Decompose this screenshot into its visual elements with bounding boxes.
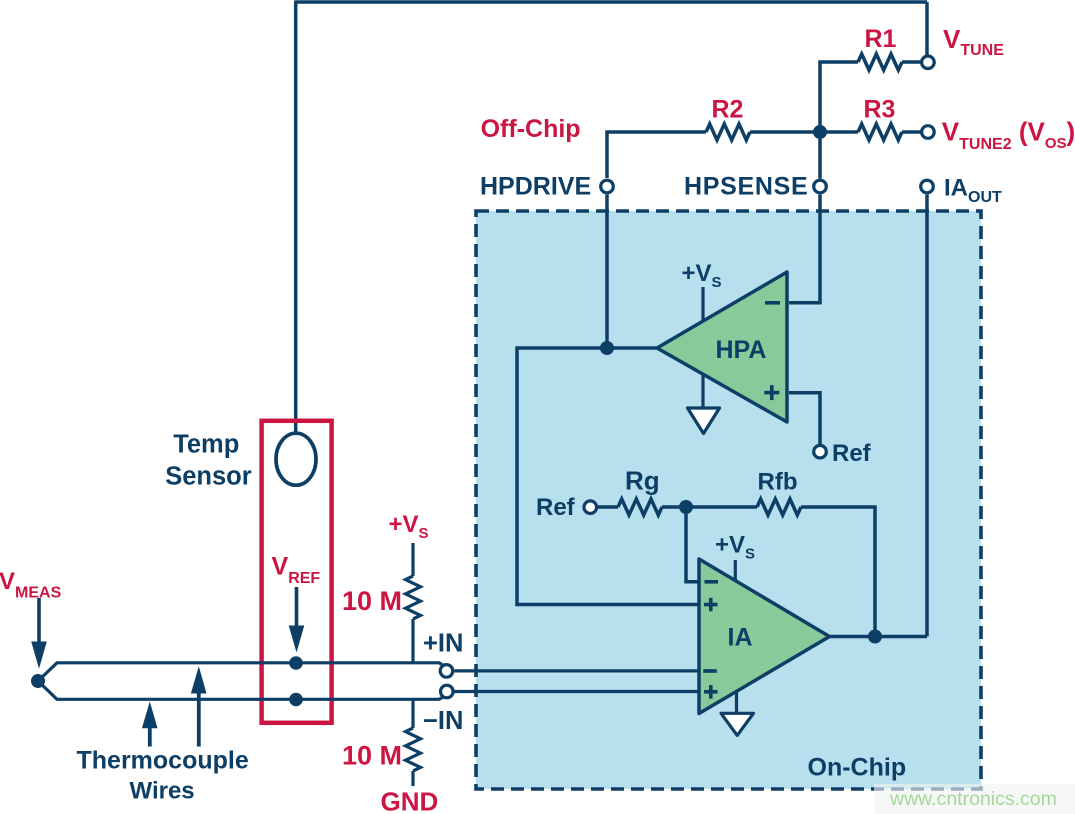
resistor R2	[706, 124, 750, 140]
node: HPSENSE junction	[813, 125, 827, 139]
svg-text:HPA: HPA	[716, 336, 767, 364]
wire: top bus	[294, 0, 927, 4]
node: IA output junction	[868, 630, 882, 644]
thermocouple pointer arrow right	[191, 666, 207, 746]
HPA noninverting input sign	[764, 385, 779, 400]
wire: Rg node down to IA top inverting input	[686, 507, 699, 582]
wire: R2 branch from HPDRIVE top to HPSENSE node	[607, 132, 820, 178]
terminal: VTUNE2	[922, 116, 1075, 153]
wire: left vertical down to temp sensor ellipse	[294, 2, 298, 433]
wire: Rfb right side down to IA output node	[801, 507, 875, 637]
VREF arrow	[289, 587, 305, 653]
svg-text:Wires: Wires	[130, 778, 195, 805]
wire: HPA noninverting input to Ref terminal	[789, 393, 820, 444]
terminal: IA Ref	[536, 494, 597, 521]
wire: R3 branch to VTUNE2	[820, 130, 921, 134]
watermark background	[874, 784, 1075, 814]
wire: thermocouple lower	[38, 681, 446, 699]
terminal: VTUNE	[922, 24, 1005, 69]
op-amp U2 IA	[699, 559, 830, 714]
svg-text:10 M: 10 M	[342, 741, 402, 771]
Temp Sensor label	[165, 431, 252, 491]
svg-text:Thermocouple: Thermocouple	[77, 747, 249, 775]
terminal: +IN	[423, 629, 463, 677]
wire: Ref to Rg	[598, 505, 618, 509]
terminal: HPDRIVE	[480, 172, 613, 200]
terminal: HPSENSE	[684, 172, 826, 200]
VMEAS arrow	[31, 598, 47, 669]
svg-text:Temp: Temp	[173, 431, 239, 459]
wire: +Vs to 10M pullup to +IN wire	[411, 543, 414, 663]
wire: HPA output node to apex	[607, 346, 658, 350]
wire: right vertical into VTUNE terminal	[925, 2, 929, 55]
IA top noninverting input sign	[704, 598, 718, 612]
wire: -IN wire to 10M pulldown to GND	[411, 699, 414, 786]
ground symbol below IA	[721, 692, 754, 735]
svg-text:R2: R2	[712, 96, 744, 124]
wire: IAOUT vertical	[925, 195, 929, 637]
svg-text:−IN: −IN	[423, 707, 463, 735]
resistor 10M pullup	[406, 576, 421, 619]
wire: +IN to IA lower inverting input	[455, 669, 700, 672]
svg-text:Rfb: Rfb	[758, 469, 798, 496]
node: Rg-Rfb junction	[679, 500, 693, 514]
On-Chip box	[476, 211, 981, 789]
HPA +Vs supply	[682, 260, 722, 321]
wire: thermocouple upper	[38, 663, 446, 681]
terminal: HPA Ref	[814, 440, 872, 467]
svg-text:R1: R1	[865, 25, 897, 53]
svg-text:R3: R3	[864, 96, 896, 124]
IA bottom noninverting input sign	[704, 685, 718, 699]
terminal: IAOUT	[921, 175, 1002, 206]
wire: HPA output node left and down to IA second input	[517, 348, 699, 605]
IA bottom inverting input sign	[703, 669, 717, 673]
node: thermocouple junction	[31, 674, 45, 688]
node: tap on lower thermocouple wire	[289, 693, 303, 707]
IA top inverting input sign	[705, 580, 719, 584]
resistor Rg	[618, 499, 662, 515]
resistor R3	[858, 124, 902, 140]
svg-text:Sensor: Sensor	[165, 463, 252, 491]
wire: HPDRIVE vertical down to HPA output node	[605, 195, 609, 349]
ground symbol below HPA	[688, 375, 720, 434]
wire: -IN to IA lower noninverting input	[455, 690, 700, 693]
wire: IA output to IAOUT line	[830, 635, 928, 639]
node: HPA output junction	[600, 341, 614, 355]
svg-text:10 M: 10 M	[342, 586, 402, 616]
node: VREF tap on upper thermocouple wire	[289, 656, 303, 670]
wire: R1 branch from HPSENSE node	[820, 62, 921, 134]
svg-text:Ref: Ref	[832, 440, 872, 467]
op-amp U1 HPA	[657, 272, 787, 422]
resistor R1	[858, 54, 902, 70]
svg-text:HPDRIVE: HPDRIVE	[480, 172, 591, 200]
terminal: -IN	[423, 685, 463, 735]
svg-text:Ref: Ref	[536, 494, 576, 521]
svg-text:Off-Chip: Off-Chip	[481, 115, 581, 143]
resistor 10M pulldown	[406, 728, 421, 771]
svg-text:+IN: +IN	[423, 629, 463, 657]
wire: HPSENSE vertical down to HPA inverting input	[789, 139, 820, 303]
IA +Vs supply	[715, 532, 755, 582]
svg-text:GND: GND	[381, 787, 439, 814]
Thermocouple Wires label	[77, 747, 249, 805]
svg-text:HPSENSE: HPSENSE	[684, 172, 808, 200]
HPA inverting input sign	[765, 301, 780, 305]
svg-text:www.cntronics.com: www.cntronics.com	[889, 788, 1057, 810]
temp sensor body	[262, 421, 332, 723]
thermocouple pointer arrow left	[142, 702, 158, 747]
svg-text:On-Chip: On-Chip	[808, 754, 907, 782]
svg-text:Rg: Rg	[625, 466, 660, 496]
svg-text:IA: IA	[728, 624, 753, 652]
resistor Rfb	[757, 499, 801, 515]
wire: Rg to Rfb	[662, 505, 757, 509]
